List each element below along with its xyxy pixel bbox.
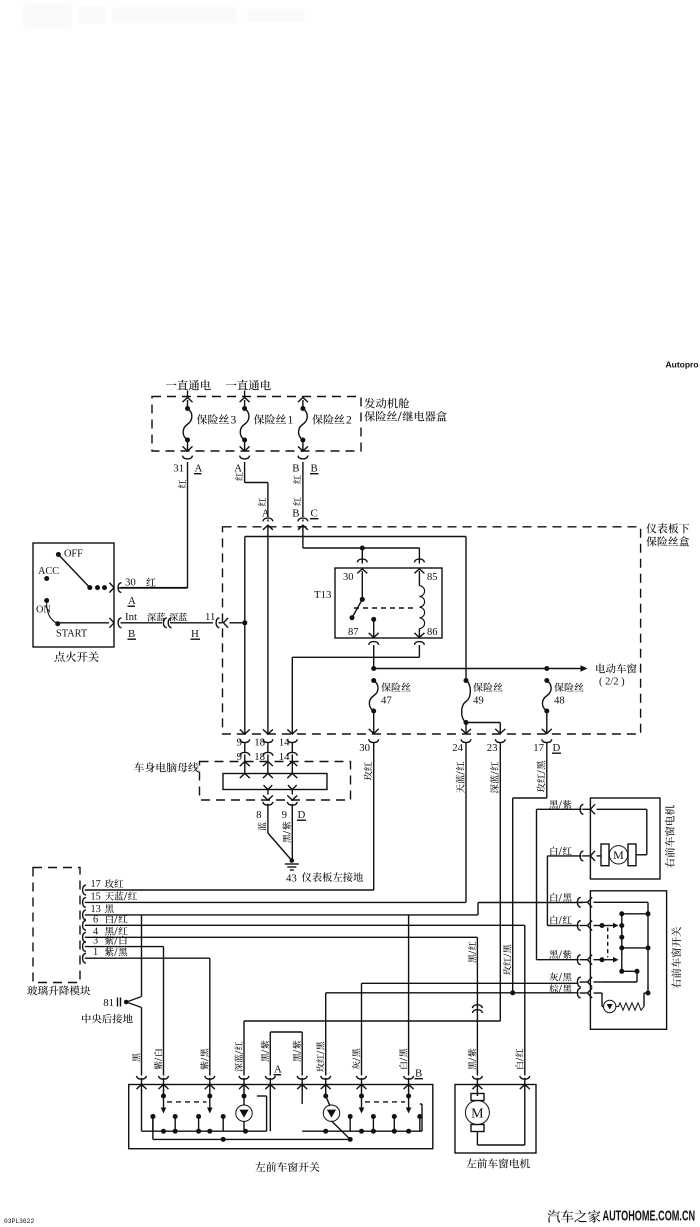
wire A entry down (pin 18 feed): [267, 530, 269, 734]
svg-text:Int: Int: [125, 611, 137, 623]
wire Int rail up-over to fuse49: [242, 620, 247, 625]
svg-text:B: B: [292, 463, 299, 475]
wire brown/black horizontal: [326, 992, 579, 994]
svg-text:B: B: [292, 508, 299, 520]
switch pin 黑/紫: [577, 955, 580, 965]
contact arm ON->START: [47, 601, 58, 624]
module pin 4 黑/红: [83, 932, 86, 942]
box title 仪表板下保险丝盒: [646, 523, 689, 533]
svg-text:86: 86: [427, 627, 438, 638]
wire module6 white/red: [85, 924, 525, 926]
wire white/black branch down to left switch B: [408, 915, 410, 1076]
wire stub to relay pin85: [418, 548, 420, 564]
svg-text:49: 49: [473, 695, 484, 707]
row wire right: [302, 1130, 422, 1132]
contact up: [600, 923, 605, 928]
lamp left: [243, 1090, 245, 1096]
wire white/black jog to right switch: [477, 903, 479, 915]
engine compartment fuse/relay box (dashed): [152, 397, 361, 452]
wire pin30 out of ignition: [118, 583, 121, 593]
svg-text:B: B: [311, 463, 318, 475]
motor pins entries: [472, 1076, 482, 1079]
fuse 49: [464, 678, 469, 683]
svg-text:C: C: [311, 508, 318, 520]
svg-text:1: 1: [288, 415, 294, 427]
right front window switch box: [590, 891, 666, 1030]
svg-text:A: A: [128, 595, 136, 607]
svg-text:A: A: [274, 1064, 282, 1076]
wire 9/D black/purple: [283, 834, 291, 842]
wire module1 purple/black down: [85, 957, 210, 959]
module pin 6 白/红: [83, 920, 86, 930]
svg-text:85: 85: [427, 572, 438, 583]
relay pin 86: [414, 633, 424, 638]
switch pin entry x=408.6: [404, 1076, 414, 1079]
svg-text:13: 13: [91, 904, 101, 915]
svg-text:T13: T13: [314, 589, 331, 601]
lower bus: [153, 1138, 350, 1140]
wire darkblue/red to left switch: [244, 1020, 500, 1022]
wire START/Int out of ignition: [58, 622, 109, 624]
switch pin entry x=209.8: [205, 1076, 215, 1079]
wire to lockout: [622, 970, 637, 972]
right front window motor box: [590, 798, 660, 879]
wire black/purple corner to switch: [537, 959, 579, 961]
wire module17 to pin30 wire: [85, 889, 374, 891]
switch pin 棕/黑: [577, 988, 580, 998]
wire fuse2 output B/B (red): [298, 456, 308, 459]
motor pin white/red: [550, 846, 571, 855]
wire Int down to pin 9: [244, 623, 246, 734]
svg-text:2: 2: [346, 415, 352, 427]
relay pin 87: [371, 617, 376, 622]
wire purple/black label: [200, 1061, 208, 1069]
fuse 保险丝1: [240, 398, 250, 403]
jumper arch A at left switch: [269, 1032, 271, 1076]
left front window motor box: [455, 1085, 536, 1154]
relay coil: [414, 569, 424, 574]
bottom watermark: [547, 1210, 600, 1223]
node relay30 feed: [360, 546, 365, 551]
svg-text:11: 11: [205, 611, 215, 623]
svg-text:03PL3622: 03PL3622: [4, 1218, 34, 1225]
svg-text:15: 15: [91, 891, 101, 902]
svg-text:43: 43: [286, 873, 297, 885]
wire module15 to pin24 wire: [85, 901, 466, 903]
wire black label at left switch: [132, 1053, 140, 1061]
ignition switch box: [33, 543, 114, 647]
svg-text:23: 23: [487, 742, 498, 754]
wire grey/black horizontal: [362, 982, 579, 984]
svg-text:48: 48: [554, 695, 565, 707]
svg-text:ACC: ACC: [38, 566, 59, 577]
svg-text:3: 3: [231, 415, 237, 427]
wire 17D rose-red/black down: [537, 783, 546, 792]
relay T13 box: [335, 568, 442, 638]
motor pin black/purple: [549, 800, 571, 809]
entry into dash fuse box (11/H): [216, 618, 219, 628]
label 玻璃升降模块: [27, 986, 90, 996]
contact arm OFF->30: [58, 555, 89, 588]
body computer bus box (dashed): [200, 762, 351, 801]
svg-text:14: 14: [279, 737, 290, 749]
wire 8 blue: [258, 822, 266, 830]
pins 9/18/14 out of fuse box: [240, 729, 250, 734]
svg-text:( 2/2 ): ( 2/2 ): [599, 677, 625, 688]
pins 30/24/23/17D out of fuse box: [369, 739, 379, 742]
instrument panel fuse box (dashed): [223, 527, 641, 734]
svg-text:87: 87: [348, 627, 359, 638]
svg-text:31: 31: [173, 463, 184, 475]
right group internals: [301, 1096, 303, 1104]
module pin 1 紫/黑: [83, 953, 86, 963]
wire white/black label at left switch: [399, 1062, 407, 1069]
switch pin entry x=302.2: [297, 1076, 307, 1079]
wire 86 to pin14: [292, 656, 419, 658]
svg-text:H: H: [191, 628, 199, 640]
wire feed above 保险丝1: [244, 391, 246, 397]
bus bar rectangle: [223, 774, 327, 790]
module pin 3 紫/白: [83, 942, 86, 952]
power-window feed bus: [374, 668, 582, 670]
label always-hot feed 2: [226, 380, 271, 390]
module pin 13 黑: [83, 910, 86, 920]
contact down: [600, 957, 605, 962]
fuse 47: [371, 678, 376, 683]
faint top-left scan artifact: [22, 4, 305, 28]
svg-text:81: 81: [103, 997, 114, 1009]
svg-text:M: M: [471, 1107, 484, 1122]
wire module4 black/purple to bottom motor: [85, 936, 478, 938]
left group internals: [141, 1090, 143, 1131]
wire fuse3 output 31/A (red): [183, 456, 193, 459]
fuse 保险丝3: [183, 398, 193, 403]
switch pin 灰/黑: [577, 977, 580, 987]
motor M left front: [476, 1090, 478, 1096]
wire purple/white label: [154, 1061, 162, 1069]
label always-hot feed 1: [166, 380, 211, 390]
wire feed above 保险丝3: [187, 391, 189, 397]
wire white/red from below: [547, 855, 581, 857]
node rose/black joins brown/black: [510, 990, 515, 995]
wire 23 darkblue/red down: [490, 784, 499, 793]
switch pin entry x=270.3: [265, 1076, 275, 1079]
resistor: [616, 1003, 644, 1010]
wire 24 skyblue/red down: [456, 784, 464, 793]
svg-text:M: M: [613, 848, 624, 862]
label 左前车窗电机: [466, 1158, 530, 1168]
relay contact arm: [352, 599, 362, 617]
svg-text:47: 47: [381, 695, 392, 707]
illumination lamp: [601, 993, 603, 1007]
wire rose/black down to left switch: [325, 993, 327, 1076]
svg-text:6: 6: [93, 914, 98, 925]
motor M right front: [609, 846, 627, 864]
svg-text:17: 17: [533, 742, 544, 754]
svg-text:9: 9: [282, 809, 287, 821]
module pin 15 天蓝/红: [83, 897, 86, 907]
wire B entry down to relay feed rail: [302, 530, 304, 548]
svg-text:18: 18: [254, 737, 265, 749]
fuse 保险丝2: [298, 398, 308, 403]
ground 81 central rear ground: [127, 997, 142, 1003]
svg-text:24: 24: [452, 742, 463, 754]
relay actuator dashed link: [354, 607, 414, 609]
wire black/purple from below: [537, 808, 582, 810]
motor inner wiring: [597, 808, 647, 810]
lamp right: [325, 1090, 327, 1096]
wire corner to ignition switch: [118, 587, 188, 589]
left front window switch box: [129, 1085, 433, 1149]
switch pin entry x=141.5: [137, 1076, 147, 1079]
svg-text:D: D: [553, 742, 561, 754]
wire module13 black: right run: [85, 914, 478, 916]
svg-text:A: A: [195, 463, 203, 475]
svg-text:30: 30: [343, 572, 354, 583]
wire 17D left jog and down: [513, 797, 547, 799]
wire white/red corner to switch: [547, 925, 578, 927]
wire jog right: [245, 482, 268, 484]
wire label black/purple near motor: [468, 1061, 476, 1069]
svg-text:AUTOHOME.COM.CN: AUTOHOME.COM.CN: [603, 1207, 696, 1224]
svg-text:ON: ON: [36, 605, 51, 616]
svg-text:Autopro: Autopro: [666, 360, 699, 370]
label 右前车窗开关 (vertical): [671, 979, 681, 989]
svg-text:8: 8: [256, 809, 261, 821]
svg-text:OFF: OFF: [64, 549, 83, 560]
ground 43 instrument panel left ground: [290, 858, 295, 863]
switch pin entry x=361.5: [357, 1076, 367, 1079]
fuse 48: [544, 678, 549, 683]
contact link dashed: [607, 928, 609, 958]
svg-text:B: B: [415, 1068, 422, 1080]
glass lift module box (dashed): [33, 868, 80, 983]
fuse49 branch to pin 23: [466, 722, 500, 724]
svg-text:30: 30: [125, 577, 136, 589]
wire grey/black down to left switch: [361, 983, 363, 1075]
label 点火开关: [54, 651, 98, 661]
label 左前车窗开关: [255, 1162, 319, 1172]
wire black down to ground 81: [141, 915, 143, 997]
wire fuse1 output A (red): [240, 456, 250, 459]
switch pin entry x=163.5: [159, 1076, 169, 1079]
svg-text:D: D: [298, 809, 306, 821]
body computer bus label: [134, 762, 199, 772]
label 右前车窗电机 (vertical): [665, 858, 675, 868]
svg-text:30: 30: [359, 742, 370, 754]
switch pin entry x=325.7: [321, 1076, 331, 1079]
inline connector on Int wire: [163, 618, 166, 628]
module pin 17 玫红: [83, 885, 86, 895]
svg-text:9: 9: [237, 737, 242, 749]
label 电动车窗 (2/2): [596, 664, 636, 674]
switch pin entry x=244: [239, 1076, 249, 1079]
switch pin 白/红: [577, 921, 580, 931]
switch pin 白/黑: [577, 897, 580, 907]
svg-text:1: 1: [93, 947, 98, 958]
svg-text:17: 17: [91, 879, 101, 890]
switch internal wiring: [602, 901, 648, 903]
wire black continues to switch: [141, 1008, 143, 1076]
bus outputs 8 and 9/D: [267, 790, 269, 795]
arch pins into box: [269, 1090, 271, 1096]
wire module3 purple/white down: [85, 946, 164, 948]
svg-text:A: A: [234, 463, 242, 475]
wire stub to relay pin30: [361, 548, 363, 564]
row wire: [142, 1130, 267, 1132]
svg-text:START: START: [56, 629, 88, 640]
svg-text:B: B: [128, 628, 135, 640]
box title 发动机舱保险丝/继电器盒: [364, 398, 409, 409]
relay contact 30: [357, 569, 367, 574]
wire 30 rose-red down: [364, 771, 373, 780]
